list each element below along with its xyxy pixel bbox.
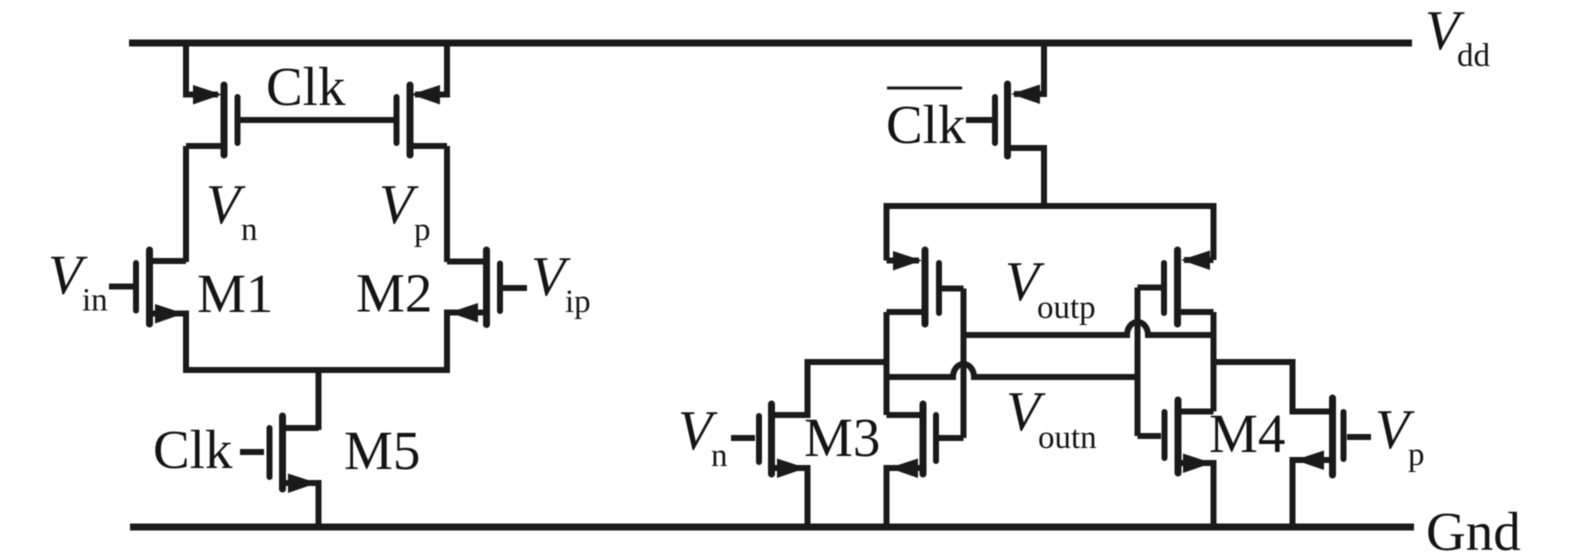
svg-text:M5: M5 <box>344 420 420 481</box>
svg-text:M2: M2 <box>356 263 432 324</box>
node label Voutp <box>1005 251 1096 326</box>
node label Voutn <box>1006 381 1097 456</box>
transistor latch NMOS right <box>1138 400 1214 527</box>
svg-text:n: n <box>241 212 258 248</box>
wire right latch source drop <box>1211 203 1217 260</box>
node Vn wire (drain of M1) <box>183 146 189 262</box>
transistor M2 (NMOS input right) <box>447 250 527 373</box>
label Vn (M3 gate) <box>678 400 728 474</box>
svg-text:ip: ip <box>565 284 591 320</box>
transistor latch PMOS right <box>1138 250 1214 324</box>
node Vp wire (drain of M2) <box>444 146 450 262</box>
svg-text:p: p <box>414 212 431 248</box>
wire node Voutp (with jump over right gate line) <box>964 322 1214 335</box>
transistor M4 (NMOS reset right) <box>1214 362 1372 527</box>
transistor M3 (NMOS reset left) <box>731 362 887 527</box>
transistor PMOS clock switch (left of Clk pair) <box>186 40 238 155</box>
wire latch top node <box>884 203 1217 209</box>
wire node Voutn (with jump over left gate line) <box>887 364 1138 377</box>
transistor M5 (NMOS tail clock) <box>240 416 319 527</box>
svg-text:V: V <box>379 174 419 236</box>
svg-text:V: V <box>206 174 246 236</box>
wire tail node (sources of M1 M2 to M5) <box>183 367 450 373</box>
power rail Vdd <box>129 40 1412 47</box>
svg-text:p: p <box>1408 437 1425 473</box>
ground rail Gnd <box>130 524 1414 531</box>
svg-text:Clk: Clk <box>266 56 346 117</box>
node label Vn <box>206 174 258 248</box>
svg-text:M4: M4 <box>1209 403 1285 464</box>
transistor PMOS precharge (Clkbar) <box>966 40 1044 206</box>
wire latch right gate vertical <box>1135 288 1141 437</box>
svg-text:Clk: Clk <box>153 419 233 480</box>
wire left latch source drop <box>884 203 890 261</box>
transistor PMOS clock switch (right of Clk pair) <box>397 40 448 155</box>
label Clk with overline (Clkbar) <box>886 88 966 155</box>
svg-text:Clk: Clk <box>886 94 966 155</box>
label Vip <box>531 246 591 320</box>
transistor latch NMOS left <box>887 404 964 527</box>
wire latch right output vertical <box>1211 312 1217 412</box>
svg-text:in: in <box>82 283 108 319</box>
svg-text:n: n <box>711 438 728 474</box>
svg-text:dd: dd <box>1457 38 1491 74</box>
wire latch left gate vertical <box>961 289 967 439</box>
svg-text:outp: outp <box>1037 290 1096 326</box>
svg-text:Gnd: Gnd <box>1426 501 1521 560</box>
transistor M1 (NMOS input left) <box>109 250 186 373</box>
svg-text:M3: M3 <box>804 407 880 468</box>
wire latch left output vertical <box>884 312 890 415</box>
label Vin <box>48 245 108 319</box>
svg-text:outn: outn <box>1038 420 1097 456</box>
net label Vdd <box>1425 0 1491 74</box>
transistor latch PMOS left <box>887 250 964 324</box>
wire Clk gate net between PMOS pair <box>238 117 397 123</box>
label Vp (M4 gate) <box>1375 399 1425 473</box>
svg-text:M1: M1 <box>197 263 273 324</box>
node label Vp <box>379 174 431 248</box>
